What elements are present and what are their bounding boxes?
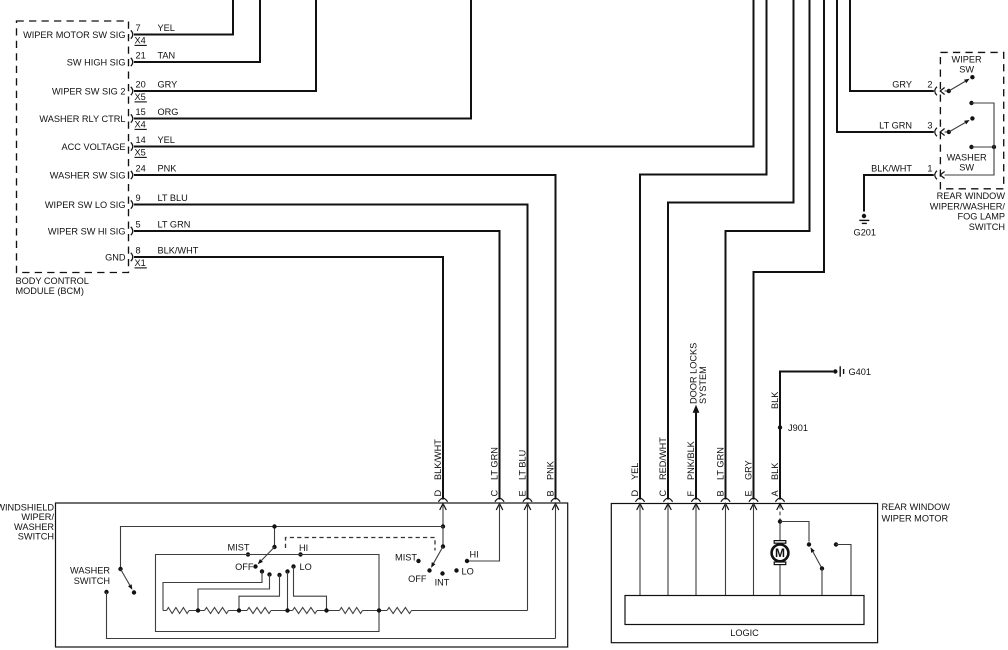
svg-text:HI: HI bbox=[470, 550, 479, 560]
contact INT right bbox=[435, 571, 450, 587]
rear wiper switch blade pin3 bbox=[949, 116, 975, 132]
svg-text:MODULE (BCM): MODULE (BCM) bbox=[16, 286, 84, 296]
right switch blade bbox=[434, 547, 443, 564]
svg-text:HI: HI bbox=[299, 543, 308, 553]
svg-text:WASHER SW SIG: WASHER SW SIG bbox=[50, 170, 126, 180]
svg-text:20: 20 bbox=[136, 80, 146, 90]
svg-text:SYSTEM: SYSTEM bbox=[698, 366, 708, 404]
junction J901 bbox=[778, 423, 808, 433]
windshield switch pin D connector bbox=[438, 498, 447, 510]
svg-text:X5: X5 bbox=[135, 92, 146, 102]
wire pin D to junction bbox=[442, 504, 444, 527]
svg-text:7: 7 bbox=[136, 23, 141, 33]
pin letter A and label BLK bbox=[770, 462, 780, 497]
svg-text:INT: INT bbox=[435, 578, 450, 588]
svg-text:LT BLU: LT BLU bbox=[518, 450, 528, 480]
svg-text:FOG LAMP: FOG LAMP bbox=[958, 212, 1005, 222]
svg-text:LOGIC: LOGIC bbox=[730, 628, 759, 638]
rear window wiper/washer/fog lamp switch dashed box bbox=[940, 52, 1003, 188]
dashed linkage between switches bbox=[286, 538, 436, 551]
wire LT BLU pin9 to windshield switch pin E bbox=[134, 205, 528, 500]
BCM pin 20 WIPER SW SIG 2 bbox=[52, 80, 177, 102]
windshield switch pin B connector bbox=[551, 498, 560, 510]
pin letter D and label BLK/WHT bbox=[433, 439, 443, 497]
svg-text:A: A bbox=[770, 490, 780, 497]
svg-text:C: C bbox=[490, 490, 500, 497]
motor switch blade bbox=[813, 552, 822, 569]
wire BLK rear motor pin A to G401 and J901 bbox=[780, 372, 833, 500]
rear wiper switch pin 2 contact bbox=[935, 87, 951, 96]
wire loop rectangle bbox=[156, 555, 380, 632]
svg-text:WIPER MOTOR: WIPER MOTOR bbox=[882, 514, 949, 524]
wire GRY to rear switch pin 2 bbox=[850, 0, 934, 91]
svg-text:WASHER: WASHER bbox=[70, 566, 110, 576]
washer switch contact to pin B wire bbox=[104, 590, 555, 639]
svg-text:BODY CONTROL: BODY CONTROL bbox=[16, 276, 89, 286]
svg-text:WIPER SW SIG 2: WIPER SW SIG 2 bbox=[52, 86, 126, 96]
contact MIST right bbox=[395, 553, 421, 564]
windshield wiper/washer switch box bbox=[56, 503, 568, 647]
motor switch second contact wire bbox=[834, 542, 851, 595]
svg-text:E: E bbox=[744, 490, 754, 496]
contact HI left bbox=[298, 543, 308, 557]
resistor R1 bbox=[167, 608, 190, 614]
node left switch feed bbox=[272, 524, 276, 528]
node D junction bbox=[441, 524, 445, 528]
svg-text:BLK: BLK bbox=[770, 462, 780, 480]
rear motor pin A connector bbox=[775, 498, 784, 510]
resistor R2 bbox=[205, 608, 229, 614]
rear wiper switch pin 3 contact bbox=[935, 128, 951, 137]
svg-text:WIPER/WASHER/: WIPER/WASHER/ bbox=[930, 201, 1006, 211]
washer switch open contact bbox=[132, 590, 136, 594]
svg-text:WASHER RLY CTRL: WASHER RLY CTRL bbox=[39, 114, 125, 124]
svg-text:PNK/BLK: PNK/BLK bbox=[686, 440, 696, 480]
motor M circle bbox=[772, 545, 789, 562]
pin letter E and label GRY bbox=[744, 460, 754, 496]
rear motor pin C connector bbox=[663, 498, 672, 510]
resistor R6 bbox=[387, 608, 412, 614]
svg-text:WASHER: WASHER bbox=[14, 522, 54, 532]
rear wiper switch lower contact bbox=[969, 101, 994, 143]
svg-text:REAR WINDOW: REAR WINDOW bbox=[937, 191, 1006, 201]
svg-text:LT GRN: LT GRN bbox=[158, 220, 191, 230]
wire LT GRN pin5 to windshield switch pin C bbox=[134, 231, 500, 500]
rear motor pin F connector bbox=[691, 498, 700, 510]
intermittent contact 4 wire bbox=[285, 569, 289, 610]
svg-text:RED/WHT: RED/WHT bbox=[658, 437, 668, 480]
svg-text:BLK/WHT: BLK/WHT bbox=[871, 164, 912, 174]
wire pin C down to HI contact bbox=[467, 504, 500, 561]
rear motor pin B connector bbox=[721, 498, 730, 510]
BCM pin 5 WIPER SW HI SIG bbox=[48, 220, 190, 237]
svg-text:WASHER: WASHER bbox=[947, 153, 987, 163]
pin letter E and label LT BLU bbox=[518, 450, 528, 497]
svg-text:M: M bbox=[775, 546, 785, 560]
rear wiper switch blade pin2 bbox=[949, 75, 975, 91]
svg-text:J901: J901 bbox=[788, 423, 808, 433]
svg-text:X1: X1 bbox=[135, 258, 146, 268]
svg-text:F: F bbox=[686, 491, 696, 497]
LO contact wire bbox=[294, 567, 327, 611]
contact HI right bbox=[465, 550, 479, 564]
svg-text:15: 15 bbox=[136, 107, 146, 117]
svg-text:SW: SW bbox=[959, 65, 974, 75]
resistor chain base wire bbox=[163, 610, 528, 612]
ground G201 bbox=[854, 214, 876, 238]
svg-text:X4: X4 bbox=[135, 35, 146, 45]
svg-text:YEL: YEL bbox=[630, 463, 640, 480]
wire PNK/BLK rear motor pin F to door locks system bbox=[695, 412, 697, 500]
wire YEL pin7 to top bbox=[134, 0, 233, 35]
washer switch pivot bbox=[118, 567, 122, 571]
svg-text:PNK: PNK bbox=[158, 164, 178, 174]
svg-text:YEL: YEL bbox=[158, 23, 175, 33]
svg-text:OFF: OFF bbox=[235, 562, 254, 572]
svg-text:B: B bbox=[716, 490, 726, 496]
svg-text:GRY: GRY bbox=[158, 80, 178, 90]
svg-text:8: 8 bbox=[136, 246, 141, 256]
pin letter C and label LT GRN bbox=[490, 447, 500, 496]
resistor R5 bbox=[340, 608, 363, 614]
svg-text:LO: LO bbox=[462, 567, 474, 577]
left switch pivot bbox=[272, 545, 276, 549]
svg-text:SW: SW bbox=[959, 163, 974, 173]
svg-text:E: E bbox=[518, 490, 528, 496]
svg-text:5: 5 bbox=[136, 220, 141, 230]
svg-text:1: 1 bbox=[927, 164, 932, 174]
rear motor pin E connector bbox=[749, 498, 758, 510]
svg-text:ORG: ORG bbox=[158, 107, 179, 117]
svg-text:WIPER MOTOR SW SIG: WIPER MOTOR SW SIG bbox=[23, 30, 125, 40]
svg-text:REAR WINDOW: REAR WINDOW bbox=[882, 502, 951, 512]
motor M brushes bbox=[774, 541, 786, 544]
resistor R3 bbox=[247, 608, 271, 614]
svg-text:WIPER SW LO SIG: WIPER SW LO SIG bbox=[45, 200, 126, 210]
svg-text:SWITCH: SWITCH bbox=[74, 576, 110, 586]
svg-text:GRY: GRY bbox=[892, 80, 912, 90]
contact OFF left bbox=[235, 562, 258, 572]
svg-text:WIPER/: WIPER/ bbox=[21, 512, 54, 522]
svg-text:SW HIGH SIG: SW HIGH SIG bbox=[67, 57, 126, 67]
motor switch upper contact bbox=[807, 542, 811, 546]
wire pin E down to resistor chain bbox=[527, 504, 529, 611]
windshield switch pin C connector bbox=[495, 498, 504, 510]
pin letter B and label LT GRN bbox=[716, 447, 726, 496]
pin letter D and label YEL bbox=[630, 463, 640, 497]
contact LO right bbox=[454, 567, 473, 577]
pin letter C and label RED/WHT bbox=[658, 437, 668, 497]
BCM pin 21 SW HIGH SIG bbox=[67, 51, 175, 68]
pin letter B and label PNK bbox=[546, 460, 556, 496]
intermittent contact 3 wire bbox=[239, 573, 282, 611]
wire pin B down bbox=[555, 504, 557, 639]
svg-text:B: B bbox=[546, 490, 556, 496]
svg-text:G401: G401 bbox=[849, 367, 871, 377]
wire junction row to washer switch bbox=[121, 527, 444, 570]
wire BLK/WHT rear switch pin 1 to G201 bbox=[864, 175, 934, 212]
svg-text:YEL: YEL bbox=[158, 135, 175, 145]
svg-text:X4: X4 bbox=[135, 119, 146, 129]
svg-text:LT GRN: LT GRN bbox=[716, 447, 726, 480]
rear motor pin D connector bbox=[635, 498, 644, 510]
right switch pivot bbox=[441, 544, 445, 548]
svg-text:GND: GND bbox=[105, 252, 126, 262]
svg-text:9: 9 bbox=[136, 193, 141, 203]
svg-text:ACC VOLTAGE: ACC VOLTAGE bbox=[62, 142, 126, 152]
wire ORG pin15 to top bbox=[134, 0, 471, 119]
svg-text:BLK/WHT: BLK/WHT bbox=[433, 439, 443, 480]
svg-text:WIPER SW HI SIG: WIPER SW HI SIG bbox=[48, 226, 126, 236]
svg-text:SWITCH: SWITCH bbox=[18, 531, 54, 541]
svg-text:3: 3 bbox=[927, 121, 932, 131]
wire BLK/WHT pin8 to windshield switch pin D bbox=[134, 257, 443, 500]
contact LO left bbox=[291, 562, 311, 572]
svg-text:LT GRN: LT GRN bbox=[490, 447, 500, 480]
chain junction nodes bbox=[196, 608, 381, 612]
inner wires pins D C F B E to logic bbox=[640, 504, 754, 596]
contact MIST left bbox=[228, 543, 251, 557]
BCM pin 8 GND bbox=[105, 246, 199, 268]
body control module (BCM) dashed box bbox=[17, 21, 129, 273]
svg-text:GRY: GRY bbox=[744, 460, 754, 480]
door locks system arrow bbox=[693, 405, 700, 413]
wire TAN pin21 to top bbox=[134, 0, 260, 62]
wire RED/WHT to rear motor pin C bbox=[668, 0, 794, 500]
svg-text:MIST: MIST bbox=[395, 553, 417, 563]
inner wire pin A to motor bbox=[779, 505, 781, 520]
intermittent contact 2 wire bbox=[198, 572, 272, 610]
BCM pin 9 WIPER SW LO SIG bbox=[45, 193, 188, 210]
svg-text:WIPER: WIPER bbox=[952, 55, 982, 65]
resistor R4 bbox=[293, 608, 318, 614]
motor switch lower node and wire to logic bbox=[820, 566, 824, 595]
logic box bbox=[625, 596, 864, 625]
svg-text:D: D bbox=[630, 490, 640, 497]
pin letter F and label PNK/BLK bbox=[686, 440, 696, 496]
svg-text:BLK: BLK bbox=[770, 391, 780, 409]
wire LT GRN to rear motor pin B bbox=[726, 0, 810, 500]
wire GRY pin20 to top bbox=[134, 0, 316, 91]
svg-text:21: 21 bbox=[136, 51, 146, 61]
svg-text:BLK/WHT: BLK/WHT bbox=[158, 246, 199, 256]
svg-text:D: D bbox=[433, 490, 443, 497]
windshield switch pin E connector bbox=[523, 498, 532, 510]
svg-text:14: 14 bbox=[136, 135, 146, 145]
svg-text:G201: G201 bbox=[854, 228, 876, 238]
wire YEL to rear motor pin D bbox=[640, 0, 767, 500]
wire PNK pin24 to windshield switch pin B bbox=[134, 175, 556, 500]
contact OFF right bbox=[408, 568, 432, 584]
svg-text:2: 2 bbox=[927, 80, 932, 90]
svg-text:SWITCH: SWITCH bbox=[969, 222, 1005, 232]
wire YEL pin14 ACC VOLTAGE to top bbox=[134, 0, 754, 147]
ground G401 bbox=[833, 366, 871, 377]
intermittent contact 1 wire bbox=[163, 569, 264, 610]
node A branch bbox=[778, 519, 782, 523]
svg-text:LT BLU: LT BLU bbox=[158, 193, 188, 203]
BCM pin 15 WASHER RLY CTRL bbox=[39, 107, 178, 129]
svg-text:LT GRN: LT GRN bbox=[879, 121, 912, 131]
branch wire to motor switch bbox=[780, 522, 809, 542]
wire GRY to rear motor pin E bbox=[754, 0, 825, 500]
svg-text:24: 24 bbox=[136, 164, 146, 174]
svg-text:PNK: PNK bbox=[546, 460, 556, 480]
left switch blade bbox=[261, 547, 274, 561]
rear washer switch blade to pin 1 bbox=[935, 143, 994, 179]
svg-text:WINDSHIELD: WINDSHIELD bbox=[0, 503, 54, 513]
BCM pin 24 WASHER SW SIG bbox=[50, 164, 177, 181]
washer switch blade bbox=[121, 569, 130, 585]
svg-text:TAN: TAN bbox=[158, 51, 176, 61]
rear washer switch contact dot bbox=[969, 145, 996, 149]
BCM pin 14 ACC VOLTAGE bbox=[62, 135, 175, 157]
svg-text:MIST: MIST bbox=[228, 543, 250, 553]
svg-text:OFF: OFF bbox=[408, 574, 427, 584]
svg-text:C: C bbox=[658, 490, 668, 497]
BCM pin 7 WIPER MOTOR SW SIG bbox=[23, 23, 175, 45]
rear window wiper motor box bbox=[611, 504, 877, 643]
svg-text:X5: X5 bbox=[135, 147, 146, 157]
svg-text:LO: LO bbox=[300, 562, 312, 572]
wire LT GRN to rear switch pin 3 bbox=[837, 0, 934, 132]
